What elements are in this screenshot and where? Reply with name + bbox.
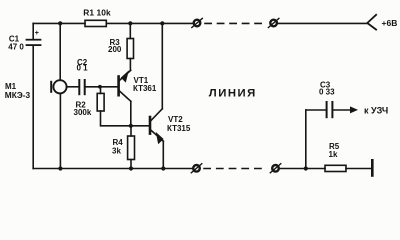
wire C2 to VT1 base bbox=[86, 86, 118, 88]
wire junction to VT2 base bbox=[131, 125, 149, 127]
junction bottom rail at microphone bbox=[58, 166, 62, 170]
wire microphone top lead bbox=[59, 23, 61, 80]
wire bottom rail right segment bbox=[279, 168, 325, 170]
wire R4 bottom stub bbox=[130, 160, 132, 169]
svg-text:R1 10k: R1 10k bbox=[83, 7, 111, 17]
connector X2 top bbox=[268, 18, 279, 27]
svg-text:VT2: VT2 bbox=[168, 115, 183, 124]
svg-text:200: 200 bbox=[108, 45, 122, 54]
resistor R2 bbox=[97, 93, 104, 111]
transistor VT1 bbox=[119, 70, 131, 101]
wire VT2 emitter down bbox=[162, 141, 164, 168]
wire C3 branch horizontal bbox=[306, 109, 326, 111]
resistor R5 bbox=[325, 165, 346, 171]
wire R2 bottom elbow bbox=[101, 111, 131, 126]
wire R5 to terminal bbox=[346, 168, 371, 170]
svg-text:+: + bbox=[35, 30, 39, 37]
junction node VT1 collector / R2 / R4 / VT2 base bbox=[129, 124, 133, 128]
wire bottom rail dashed line section bbox=[204, 168, 264, 170]
svg-text:0 33: 0 33 bbox=[319, 87, 335, 96]
connector X3 bottom bbox=[191, 164, 202, 173]
capacitor C3 bbox=[327, 102, 333, 117]
junction bottom rail at C3 branch bbox=[304, 166, 308, 170]
resistor R1 bbox=[85, 20, 106, 26]
svg-text:1k: 1k bbox=[329, 150, 338, 159]
resistor R4 bbox=[128, 136, 135, 160]
capacitor C1 bbox=[27, 40, 41, 45]
wire C3 branch vertical bbox=[305, 110, 307, 169]
wire top rail dashed line section bbox=[205, 22, 266, 24]
terminal bottom right pin bbox=[371, 160, 374, 175]
wire R2 top stub bbox=[100, 87, 102, 94]
wire left vertical branch bbox=[32, 23, 34, 39]
wire top rail right segment bbox=[277, 22, 367, 24]
wire microphone output to C2 bbox=[67, 86, 79, 88]
svg-text:300k: 300k bbox=[74, 108, 92, 117]
connector X1 top bbox=[192, 18, 203, 27]
transistor VT2 bbox=[150, 109, 163, 143]
svg-text:47 0: 47 0 bbox=[8, 42, 24, 51]
wire top rail left segment bbox=[33, 22, 85, 24]
svg-text:+6В: +6В bbox=[382, 18, 398, 28]
terminal +6V fork bbox=[367, 15, 376, 30]
microphone M1 bbox=[51, 80, 66, 93]
junction C2 to R2 bbox=[98, 85, 102, 89]
svg-text:КТ315: КТ315 bbox=[167, 124, 191, 133]
junction bottom rail at R4 bbox=[129, 166, 133, 170]
junction top rail at VT2 collector bbox=[160, 21, 164, 25]
svg-text:МКЭ-3: МКЭ-3 bbox=[5, 90, 31, 100]
wire C1 bottom to bottom rail bbox=[32, 46, 34, 169]
svg-text:ЛИНИЯ: ЛИНИЯ bbox=[209, 87, 257, 99]
wire microphone bottom lead bbox=[59, 93, 61, 168]
wire R4 top stub bbox=[130, 126, 132, 136]
wire bottom rail left segment bbox=[33, 168, 192, 170]
arrow to output bbox=[350, 106, 358, 113]
wire VT1 collector down bbox=[130, 101, 132, 126]
svg-text:3k: 3k bbox=[112, 147, 121, 156]
wire R3 bottom stub bbox=[129, 59, 131, 71]
junction top rail at R3 bbox=[128, 21, 132, 25]
capacitor C2 bbox=[79, 80, 84, 94]
connector X4 bottom bbox=[270, 164, 281, 173]
junction bottom rail at VT2 emitter bbox=[161, 166, 165, 170]
wire top rail middle segment bbox=[106, 22, 192, 24]
svg-text:0 1: 0 1 bbox=[77, 64, 89, 73]
svg-text:КТ361: КТ361 bbox=[133, 84, 157, 93]
junction top rail at microphone bbox=[58, 21, 62, 25]
wire C3 to arrow bbox=[333, 109, 350, 111]
svg-text:к УЗЧ: к УЗЧ bbox=[364, 106, 388, 116]
wire R3 top stub bbox=[129, 23, 131, 38]
resistor R3 bbox=[127, 39, 133, 59]
wire VT2 collector up bbox=[161, 23, 163, 108]
